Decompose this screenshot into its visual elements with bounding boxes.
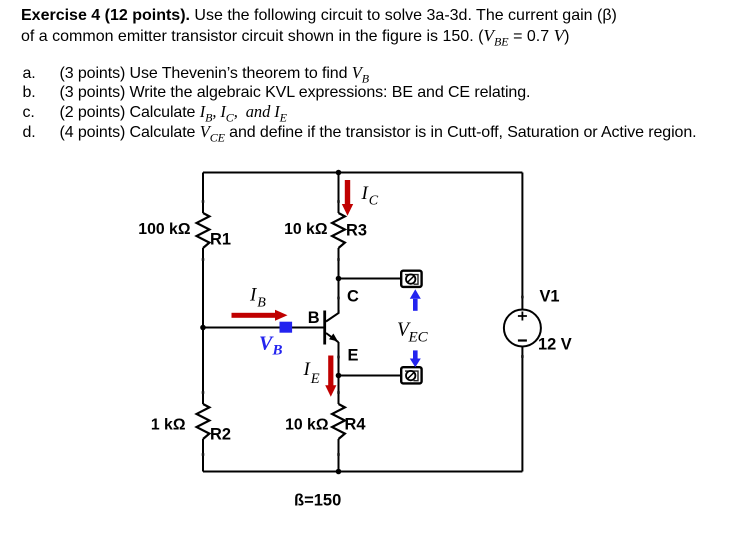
svg-text:B: B (308, 309, 320, 327)
question list a-d (23, 63, 697, 142)
label IE (303, 359, 320, 387)
svg-text:100 kΩ: 100 kΩ (138, 221, 191, 238)
svg-text:10 kΩ: 10 kΩ (284, 221, 328, 238)
svg-text:B: B (257, 296, 266, 311)
svg-text:10 kΩ: 10 kΩ (285, 417, 329, 434)
wire base (203, 327, 324, 329)
source V1 circle (504, 310, 541, 347)
label IC (361, 183, 379, 209)
svg-text:R3: R3 (346, 222, 367, 240)
transistor Q1 base bar (323, 311, 326, 345)
source V1 plus sign (518, 312, 527, 321)
wire emitter branch (338, 342, 340, 404)
node VB marker (blue square) (280, 322, 293, 333)
resistor R2 (197, 404, 210, 439)
label VB (blue) (259, 333, 283, 359)
wire top rail (203, 172, 522, 174)
wire bottom rail (203, 471, 522, 473)
probe P2 (emitter) box (401, 367, 421, 383)
wire left rail upper (202, 173, 204, 214)
wire middle top (338, 173, 340, 214)
svg-text:B: B (272, 343, 283, 359)
source V1 minus sign (518, 339, 527, 341)
wire right rail lower (521, 347, 523, 472)
wire right rail upper (521, 173, 523, 310)
probe P1 (collector) box (401, 271, 421, 287)
node: collector junction (336, 276, 342, 282)
problem statement text (21, 6, 617, 46)
label VEC (397, 320, 429, 346)
label IB (249, 285, 266, 311)
wire collector to probe (339, 278, 402, 280)
node: bottom junction (336, 469, 342, 475)
transistor Q1 emitter arrowhead (329, 334, 338, 342)
node: base junction (200, 325, 206, 331)
svg-text:C: C (369, 194, 379, 209)
arrow VEC upper (blue, up) (410, 289, 421, 311)
svg-text:C: C (347, 288, 359, 306)
arrow VEC lower (blue, down) (410, 350, 421, 367)
wire left rail middle (202, 248, 204, 404)
wire emitter to probe (339, 375, 402, 377)
arrow IE (red, down) (325, 356, 336, 397)
svg-text:12 V: 12 V (538, 336, 572, 354)
arrow IB (red, right) (232, 310, 288, 321)
pin tick marks (202, 200, 524, 456)
svg-text:1 kΩ: 1 kΩ (151, 417, 186, 434)
wire left rail lower (202, 439, 204, 472)
svg-text:V1: V1 (540, 288, 560, 306)
transistor Q1 collector lead (326, 310, 339, 322)
svg-text:E: E (348, 347, 359, 365)
resistor R4 (332, 404, 345, 439)
resistor R1 (197, 213, 210, 248)
svg-text:ß=150: ß=150 (294, 492, 341, 510)
svg-text:EC: EC (408, 330, 429, 346)
node: emitter junction (336, 373, 342, 379)
node: top junction (336, 170, 342, 176)
wire collector branch (338, 248, 340, 313)
arrow IC (red, down) (342, 180, 353, 216)
svg-text:R2: R2 (210, 426, 231, 444)
transistor Q1 emitter lead (326, 333, 338, 342)
svg-text:R1: R1 (210, 231, 231, 249)
svg-text:E: E (310, 371, 320, 387)
resistor R3 (332, 213, 345, 248)
wire middle bottom (338, 439, 340, 472)
svg-text:R4: R4 (345, 416, 367, 434)
